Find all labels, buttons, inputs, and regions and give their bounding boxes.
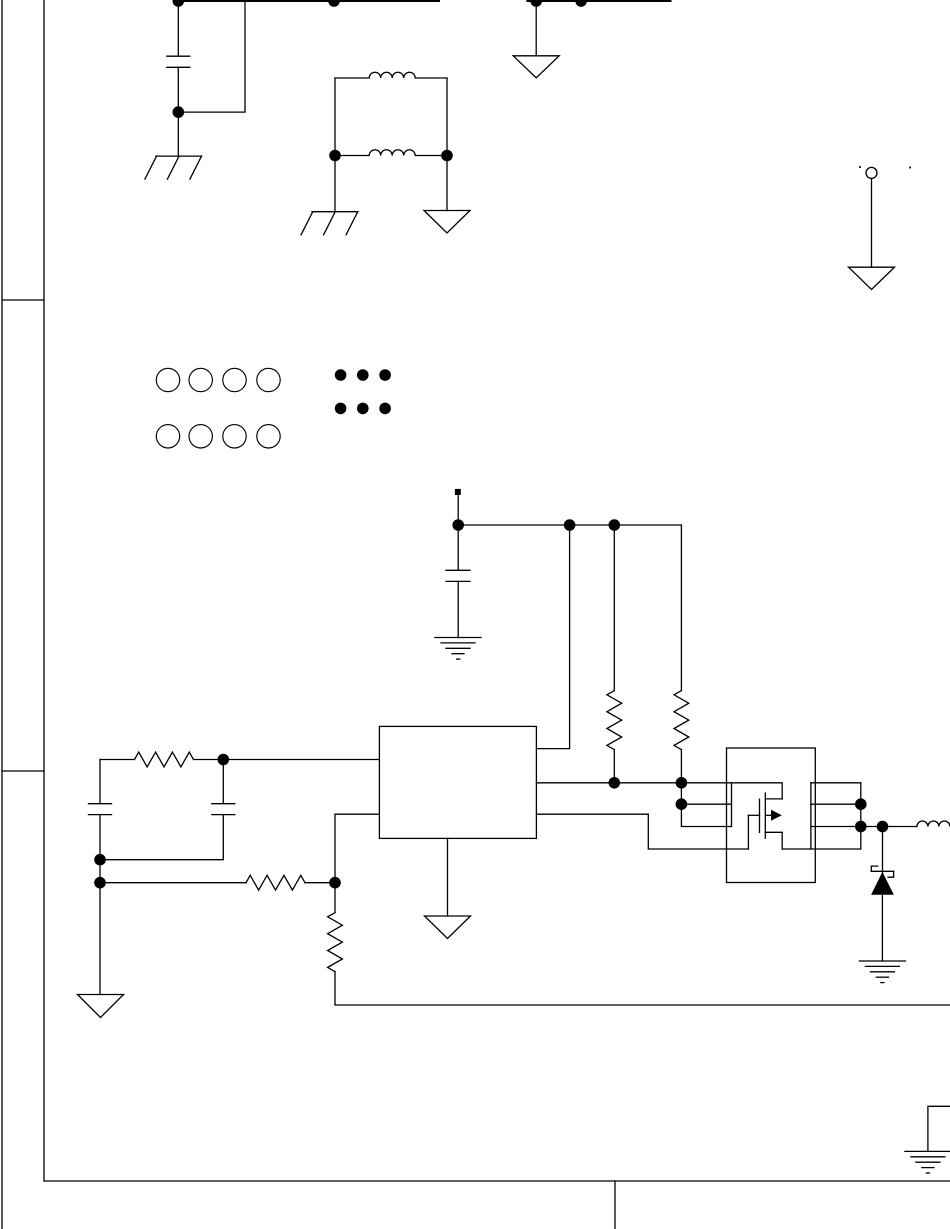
connector J3 dot row1 col2 — [357, 369, 369, 381]
connector J2 pad circle row2 col1 — [156, 425, 179, 448]
wire node to R5 — [100, 882, 246, 884]
node junction dot rail left — [452, 519, 464, 531]
transistor Q1 package box — [727, 748, 816, 883]
wire L-loop left to ground — [334, 156, 336, 212]
wire right pin row3 — [811, 826, 861, 828]
capacitor C3 — [89, 804, 112, 815]
wire drain rail — [732, 783, 783, 799]
net power marker square VIN — [455, 489, 461, 495]
wire rail B to ground — [535, 2, 537, 56]
connector J2 pad circle row2 col2 — [189, 425, 212, 448]
wire rail to IC pin1 — [536, 525, 569, 749]
node junction dot rail mid1 — [564, 519, 576, 531]
inductor L3 — [917, 821, 950, 826]
wire IC pin2 row to mosfet — [536, 782, 731, 784]
wire from C1 junction down to ground — [177, 112, 179, 156]
frame left tick lower — [2, 770, 44, 772]
capacitor C1 — [167, 56, 190, 67]
wire L-loop right vertical — [446, 78, 448, 156]
node junction dot switch node — [877, 821, 889, 833]
node junction dot on rail A at C1 — [173, 0, 185, 7]
wire R3 node down — [680, 783, 682, 804]
node junction dot boot row — [676, 798, 688, 810]
connector pin circle J1 — [866, 167, 877, 178]
connector J3 dot row1 col3 — [379, 369, 391, 381]
capacitor C2 — [446, 570, 470, 581]
connector J2 pad circle row1 col3 — [223, 368, 246, 391]
wire boot row to mosfet — [681, 803, 731, 805]
wire C3 top lead — [99, 760, 101, 804]
wire C3 top to R1 — [100, 759, 135, 761]
wire Q1 drain lead — [765, 798, 782, 800]
node junction dot pin2 row at R3 — [676, 777, 688, 789]
wire switch node to L3 — [883, 826, 917, 828]
ground triangle GND5 — [849, 267, 895, 289]
resistor R2 — [607, 691, 622, 750]
wire D1 anode to ground — [881, 895, 883, 961]
transistor Q1 body arrow — [771, 810, 782, 821]
node junction dot feedback lower — [94, 877, 106, 889]
wire R4 top lead — [334, 883, 336, 913]
wire from C1 junction right and up to rail A — [178, 0, 245, 112]
wire C1 bottom lead — [177, 67, 179, 112]
wire Q1 source lead — [765, 832, 782, 849]
wire power marker to rail — [457, 494, 459, 525]
transistor Q1 channel bar — [764, 793, 766, 838]
speck left of connector circle — [859, 166, 861, 168]
node junction dot on rail A right — [328, 0, 340, 7]
node junction dot on rail B left — [530, 0, 542, 7]
wire switch node — [861, 826, 883, 828]
inductor L1 top — [335, 72, 447, 78]
connector J3 dot row1 col1 — [335, 369, 347, 381]
wire pin circle to ground — [871, 178, 873, 267]
frame inner left border — [43, 0, 45, 1181]
connector J2 pad circle row1 col4 — [257, 368, 280, 391]
diode D1 schottky cathode — [871, 866, 893, 877]
wire R1 to IC pin — [194, 759, 380, 761]
connector J3 dot row2 col3 — [379, 403, 391, 415]
ground chassis GND1 — [145, 156, 202, 179]
wire L-loop left vertical — [334, 78, 336, 156]
wire Q1 left pin bus — [731, 783, 733, 827]
connector J2 pad circle row1 col1 — [156, 368, 179, 391]
frame outer left border — [1, 0, 3, 1229]
wire right pins vertical — [860, 783, 862, 849]
node junction dot rail mid2 — [609, 519, 621, 531]
wire top rail B — [527, 0, 670, 2]
ground earth GND10 — [905, 1151, 950, 1173]
wire Q1 gate lead — [748, 814, 759, 816]
wire Q1 body lead — [765, 814, 771, 816]
wire mid supply rail — [458, 524, 681, 526]
node junction dot at R4 top — [329, 877, 341, 889]
connector J3 dot row2 col1 — [335, 403, 347, 415]
transistor Q1 gate bar — [759, 799, 761, 832]
inductor L2 bottom — [335, 150, 447, 156]
ground earth GND9 — [859, 961, 905, 983]
node junction dot right pins row2 — [855, 798, 867, 810]
connector J2 pad circle row1 col2 — [189, 368, 212, 391]
resistor R1 — [135, 752, 194, 767]
wire C3 bottom lead — [99, 815, 101, 860]
wire rail to R2 top — [613, 525, 615, 691]
ground earth GND6 — [435, 638, 481, 660]
wire partial box bottom right — [928, 1106, 950, 1151]
speck right of connector circle — [909, 167, 911, 169]
resistor R5 — [246, 875, 305, 890]
node junction dot on rail B right — [575, 0, 587, 7]
wire top rail A — [176, 0, 439, 2]
wire R2 bottom lead — [613, 750, 615, 783]
wire right pin row2 — [811, 803, 861, 805]
diode D1 anode triangle — [871, 872, 894, 895]
wire C1 top lead — [177, 2, 179, 56]
wire Q1 gate down — [747, 815, 749, 849]
node junction dot below C1 — [173, 106, 185, 118]
wire R3 bottom lead — [680, 750, 682, 783]
wire Q1 right pin bus — [810, 783, 812, 849]
node junction dot pin2 row at R2 — [609, 777, 621, 789]
wire C4 bottom lead to node — [100, 815, 223, 860]
wire R5 to node — [305, 882, 335, 884]
node junction dot feedback upper — [94, 854, 106, 866]
ground triangle GND8 — [78, 995, 124, 1018]
wire node down to ground — [99, 883, 101, 995]
frame left tick upper — [2, 299, 44, 301]
wire C4 top lead — [222, 760, 224, 804]
wire source bottom rail — [782, 848, 861, 850]
wire R4 bottom to right edge — [335, 972, 950, 1005]
wire node up to IC pin — [335, 814, 379, 883]
wire C2 bottom lead — [457, 581, 459, 637]
connector J2 pad circle row2 col3 — [223, 425, 246, 448]
wire switch node to D1 — [882, 827, 884, 874]
resistor R3 — [674, 691, 689, 750]
node junction dot L-loop right — [441, 150, 453, 162]
resistor R4 — [328, 913, 343, 972]
connector J3 dot row2 col2 — [357, 403, 369, 415]
connector J2 pad circle row2 col4 — [257, 425, 280, 448]
ground triangle GND3 — [424, 211, 470, 234]
wire C2 top lead — [457, 525, 459, 570]
frame bottom tick — [614, 1181, 616, 1229]
wire IC pin3 to gate — [536, 814, 748, 849]
wire L-loop right to ground — [446, 156, 448, 211]
node junction dot at C4 top — [218, 754, 230, 766]
node junction dot L-loop left — [329, 150, 341, 162]
capacitor C4 — [212, 804, 235, 815]
node junction dot right pins row3 — [855, 821, 867, 833]
ground triangle GND4 — [513, 56, 559, 78]
ground triangle GND7 — [425, 916, 471, 939]
wire boot node down and right to mosfet — [681, 804, 731, 826]
op-amp IC U1 box — [379, 726, 536, 838]
wire rail right end to R3 top — [680, 525, 682, 691]
wire IC bottom pin to ground — [447, 838, 449, 916]
ground chassis GND2 — [301, 212, 358, 235]
wire right pins top rail — [811, 782, 861, 784]
frame bottom border — [44, 1180, 950, 1182]
wire node to node — [99, 860, 101, 883]
